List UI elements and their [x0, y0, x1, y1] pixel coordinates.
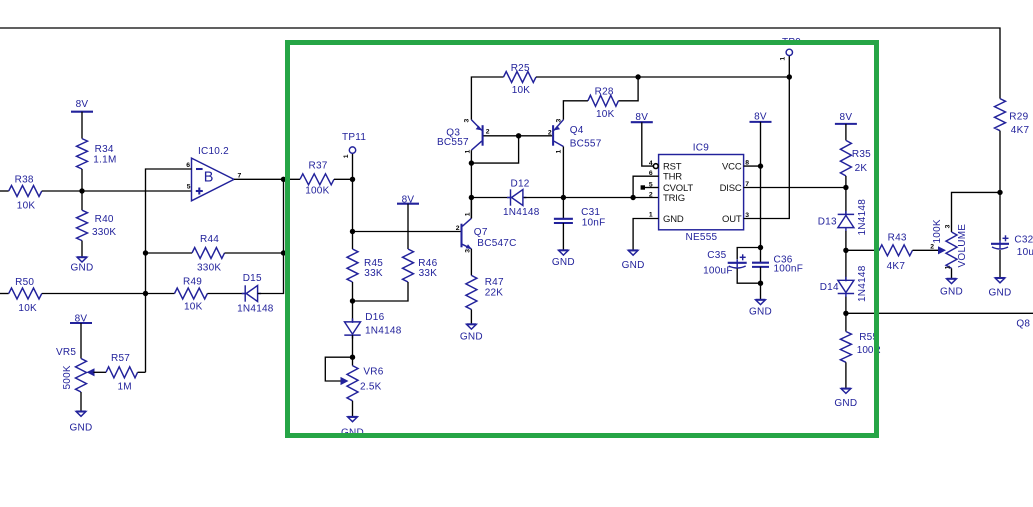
wire R28 to Q4 emitter [563, 101, 588, 120]
wire VR6 to ground [352, 401, 354, 417]
svg-text:B: B [204, 170, 214, 186]
capacitor C32 [991, 243, 1009, 245]
svg-text:1N4148: 1N4148 [365, 325, 402, 336]
test point TP9 [786, 49, 792, 55]
svg-text:2.5K: 2.5K [360, 382, 382, 393]
svg-text:R35: R35 [852, 149, 871, 160]
resistor R44 [146, 252, 193, 254]
svg-text:2: 2 [930, 244, 934, 251]
svg-text:6: 6 [186, 162, 190, 169]
wire VR6 wiper loop [325, 357, 352, 381]
capacitor C31 [562, 198, 564, 219]
svg-text:R50: R50 [15, 277, 34, 288]
power 8V R34 [71, 111, 93, 113]
node op-amp output [281, 177, 286, 182]
diode D12 [471, 197, 510, 199]
node TP9 [787, 74, 792, 79]
wire Q8 row [846, 312, 1033, 314]
svg-text:R43: R43 [888, 233, 907, 244]
resistor R50 [0, 293, 9, 295]
resistor R43 [846, 249, 880, 251]
node C35/C36 top [758, 245, 763, 250]
node R25/R28 [635, 74, 640, 79]
pin RST bubble [653, 164, 658, 169]
wire 8V to R35 [845, 124, 847, 140]
svg-text:GND: GND [749, 307, 772, 318]
svg-text:R25: R25 [511, 63, 530, 74]
svg-text:D15: D15 [243, 273, 262, 284]
wire R55 to ground [845, 362, 847, 388]
node R44 left [143, 250, 148, 255]
svg-text:10nF: 10nF [582, 218, 606, 229]
svg-text:22K: 22K [485, 287, 504, 298]
svg-text:IC9: IC9 [693, 143, 710, 154]
node Q3 collector tie [469, 160, 474, 165]
wire C31 to ground [562, 223, 564, 250]
svg-text:1: 1 [780, 57, 787, 61]
wire D15 up to R44 row [258, 253, 284, 294]
wire C32 to ground [999, 250, 1001, 278]
transistor Q3 BC557 [482, 125, 484, 146]
node VCC [758, 163, 763, 168]
resistor R37 [300, 174, 334, 185]
wire R57 to feedback line [138, 371, 146, 373]
transistor Q4 BC557 [552, 125, 554, 146]
svg-text:GND: GND [71, 263, 94, 274]
svg-text:3: 3 [465, 249, 472, 253]
svg-text:GND: GND [460, 332, 483, 343]
svg-text:8V: 8V [754, 112, 767, 123]
wire R40 to ground [81, 241, 83, 258]
svg-text:D14: D14 [820, 282, 839, 293]
svg-text:C32: C32 [1014, 234, 1033, 245]
ground below R47 [467, 324, 477, 329]
svg-text:1.1M: 1.1M [93, 155, 116, 166]
potentiometer VR6 [347, 366, 358, 401]
svg-text:10K: 10K [18, 303, 37, 314]
svg-text:10uF: 10uF [1017, 247, 1033, 258]
svg-text:R49: R49 [183, 277, 202, 288]
svg-text:4K7: 4K7 [887, 261, 906, 272]
diode D16 [345, 322, 361, 334]
svg-text:8: 8 [745, 159, 749, 166]
svg-text:8V: 8V [840, 112, 853, 123]
ground below R55 [841, 389, 851, 394]
resistor R35 [840, 140, 851, 176]
svg-text:1N4148: 1N4148 [237, 304, 274, 315]
wire R35 to DISC node [845, 176, 847, 215]
svg-text:1M: 1M [118, 382, 132, 393]
ground below R40 [77, 257, 87, 262]
svg-text:1: 1 [945, 265, 952, 269]
op-amp IC10.2 [192, 158, 235, 201]
svg-text:TRIG: TRIG [663, 193, 685, 204]
wire C35 bottom [737, 269, 760, 284]
ground below VR6 [348, 417, 358, 422]
wire output node down to R44 [283, 179, 285, 253]
wire D12 to C31 node [524, 197, 564, 199]
svg-text:D12: D12 [511, 179, 530, 190]
resistor R46 [403, 249, 414, 282]
svg-text:1: 1 [556, 150, 563, 154]
svg-text:VCC: VCC [722, 161, 742, 172]
resistor R25 [471, 77, 503, 120]
node Q3 collector/D12 row [469, 195, 474, 200]
svg-text:2: 2 [486, 129, 490, 136]
wire Q7 emitter to R47 [470, 249, 472, 276]
wire top rail to R29 [0, 28, 1000, 99]
node TP11 [350, 177, 355, 182]
svg-text:33K: 33K [419, 268, 438, 279]
svg-text:3: 3 [945, 224, 952, 228]
svg-text:BC547C: BC547C [477, 238, 516, 249]
svg-text:NE555: NE555 [686, 232, 718, 243]
svg-text:2: 2 [456, 225, 460, 232]
svg-text:100K: 100K [932, 219, 943, 243]
svg-text:GND: GND [989, 288, 1012, 299]
wire Q7 collector up [470, 198, 472, 219]
svg-text:3: 3 [463, 119, 470, 123]
node THR/TRIG tie [630, 195, 635, 200]
ground below C35 C36 [756, 300, 766, 305]
svg-text:2: 2 [649, 191, 653, 198]
svg-text:BC557: BC557 [437, 137, 469, 148]
svg-text:2: 2 [548, 130, 552, 137]
resistor R49 [146, 293, 175, 295]
svg-text:330K: 330K [197, 262, 221, 273]
svg-text:IC10.2: IC10.2 [198, 146, 229, 157]
svg-text:R34: R34 [95, 144, 114, 155]
node D14/R55/Q8 [843, 311, 848, 316]
wire TP11 node down to base row [352, 179, 354, 231]
power 8V RST [631, 121, 653, 123]
node base row [350, 229, 355, 234]
wire VCC rail [760, 122, 762, 263]
resistor R47 [466, 275, 477, 309]
svg-text:10K: 10K [596, 109, 615, 120]
resistor R57 [94, 371, 107, 373]
pin CVOLT stub [645, 187, 659, 189]
svg-text:THR: THR [663, 172, 682, 183]
svg-text:1N4148: 1N4148 [857, 265, 868, 302]
pin GND wire [633, 219, 659, 251]
resistor R34 [77, 139, 88, 169]
node DISC/R35/D13 [843, 185, 848, 190]
pin DISC wire [744, 187, 846, 189]
wire R25 to TP9 column [536, 76, 789, 78]
IC IC9 NE555 [659, 155, 744, 230]
wire R34 to node [81, 169, 83, 191]
svg-text:R57: R57 [111, 353, 130, 364]
pin VCC wire [744, 165, 761, 167]
wire base-collector tie [471, 136, 518, 163]
svg-text:5: 5 [187, 184, 191, 191]
svg-text:8V: 8V [76, 99, 89, 110]
capacitor C35 [737, 248, 760, 260]
wire R38 to op-amp + input [42, 190, 192, 192]
resistor R29 [995, 99, 1006, 131]
wire C36 bottom [760, 267, 762, 300]
svg-text:OUT: OUT [722, 214, 742, 225]
svg-text:330K: 330K [92, 227, 116, 238]
svg-text:DISC: DISC [720, 183, 742, 194]
svg-text:33K: 33K [364, 268, 383, 279]
svg-text:VR6: VR6 [363, 367, 383, 378]
wire 8V to VR5 [80, 323, 82, 359]
ground below C31 [559, 250, 569, 255]
test point TP11 [352, 153, 354, 179]
ground below C32 [995, 278, 1005, 283]
node C35/C36 bottom [758, 281, 763, 286]
svg-text:BC557: BC557 [570, 139, 602, 150]
svg-text:100K: 100K [305, 186, 329, 197]
wire R46 bottom to R45 bottom [353, 282, 409, 301]
wire R49 to D15 [207, 293, 245, 295]
wire R50 to node [42, 293, 146, 295]
svg-text:1: 1 [465, 212, 472, 216]
node Q3 base tie [516, 133, 521, 138]
pin OUT wire [744, 56, 790, 219]
svg-text:Q8: Q8 [1016, 319, 1030, 330]
svg-text:10K: 10K [184, 302, 203, 313]
node D13/D14/R43 [843, 248, 848, 253]
svg-text:VOLUME: VOLUME [957, 224, 968, 268]
node R29/C32/pot junction [997, 190, 1002, 195]
potentiometer VR5 [76, 359, 87, 393]
svg-text:R38: R38 [15, 174, 34, 185]
svg-text:GND: GND [552, 257, 575, 268]
svg-text:2K: 2K [855, 163, 868, 174]
wire VR5 to ground [80, 392, 82, 412]
wire D13 to R43 node [845, 231, 847, 280]
svg-text:1N4148: 1N4148 [503, 207, 540, 218]
resistor R40 [81, 191, 83, 210]
svg-text:8V: 8V [635, 112, 648, 123]
svg-text:R28: R28 [595, 86, 614, 97]
wire op-amp output [234, 178, 300, 180]
svg-text:GND: GND [940, 286, 963, 297]
svg-text:C31: C31 [581, 207, 600, 218]
green highlight rectangle [288, 43, 877, 436]
node R45/R46 junction [350, 298, 355, 303]
capacitor C36 [752, 262, 769, 264]
svg-text:7: 7 [745, 181, 749, 188]
svg-text:GND: GND [622, 260, 645, 271]
svg-text:R29: R29 [1009, 111, 1028, 122]
wire R29 to C32 node [999, 131, 1001, 241]
svg-text:10K: 10K [512, 85, 531, 96]
power 8V VR5 [70, 322, 92, 324]
svg-text:100uF: 100uF [703, 266, 733, 277]
svg-text:R44: R44 [200, 234, 219, 245]
wire D14 to Q8 node [845, 297, 847, 332]
svg-text:R40: R40 [95, 214, 114, 225]
power 8V R35 [835, 123, 857, 125]
svg-text:VR5: VR5 [56, 347, 76, 358]
wire Q3 base to Q4 base [484, 135, 553, 137]
svg-text:GND: GND [70, 423, 93, 434]
resistor R55 [840, 332, 851, 363]
wire volume pot to ground [951, 268, 953, 279]
ground below VR5 [76, 412, 86, 417]
transistor Q7 BC547C [460, 224, 462, 248]
svg-text:3: 3 [556, 119, 563, 123]
wire op-amp inverting input feedback [146, 169, 192, 372]
svg-text:1: 1 [464, 150, 471, 154]
svg-text:Q4: Q4 [570, 125, 584, 136]
wire 8V to R34 [81, 112, 83, 139]
svg-text:GND: GND [663, 214, 684, 225]
wire 8V to R46 [407, 204, 409, 249]
svg-text:500K: 500K [62, 365, 73, 389]
wire D16 to VR6 node [352, 335, 354, 366]
node D12/C31/Q4 [561, 195, 566, 200]
node R38/R34/R40 [79, 188, 84, 193]
svg-text:1: 1 [343, 154, 350, 158]
resistor R45 [352, 232, 354, 250]
svg-text:GND: GND [834, 398, 857, 409]
svg-text:D16: D16 [365, 312, 384, 323]
resistor R28 [618, 77, 638, 101]
node VR6 top [350, 355, 355, 360]
svg-text:7: 7 [238, 173, 242, 180]
diode D13 [838, 213, 854, 215]
wire 8V to RST [642, 122, 654, 166]
node R50/R49 [143, 291, 148, 296]
wire R45 bottom to D16 [352, 282, 354, 322]
svg-text:1: 1 [649, 211, 653, 218]
svg-text:D13: D13 [818, 217, 837, 228]
diode D15 [244, 285, 246, 301]
diode D14 [838, 280, 854, 292]
node R44 right [281, 250, 286, 255]
potentiometer VOLUME 100K [952, 192, 1001, 232]
wire R47 to ground [470, 310, 472, 325]
svg-text:R37: R37 [309, 160, 328, 171]
wire C31 node to IC9 TRIG [563, 197, 658, 199]
wire Q3 collector down [470, 150, 472, 218]
power 8V R46 [397, 203, 419, 205]
pin THR wire [633, 176, 659, 197]
wire base row to Q7 [353, 231, 461, 233]
wire Q4 collector down [562, 147, 564, 198]
wire R37 to TP11 node [334, 178, 353, 180]
svg-text:8V: 8V [75, 313, 88, 324]
resistor R38 [0, 190, 9, 192]
power 8V VCC [750, 121, 772, 123]
svg-text:4K7: 4K7 [1011, 125, 1030, 136]
svg-text:Q7: Q7 [474, 227, 488, 238]
svg-text:100nF: 100nF [774, 264, 804, 275]
ground below volume pot [947, 279, 957, 284]
svg-text:TP11: TP11 [342, 132, 366, 143]
wire R43 to volume pot wiper [913, 249, 939, 251]
svg-text:1N4148: 1N4148 [857, 199, 868, 236]
svg-text:C35: C35 [707, 250, 726, 261]
ground IC9 [628, 250, 638, 255]
svg-text:10K: 10K [17, 200, 36, 211]
